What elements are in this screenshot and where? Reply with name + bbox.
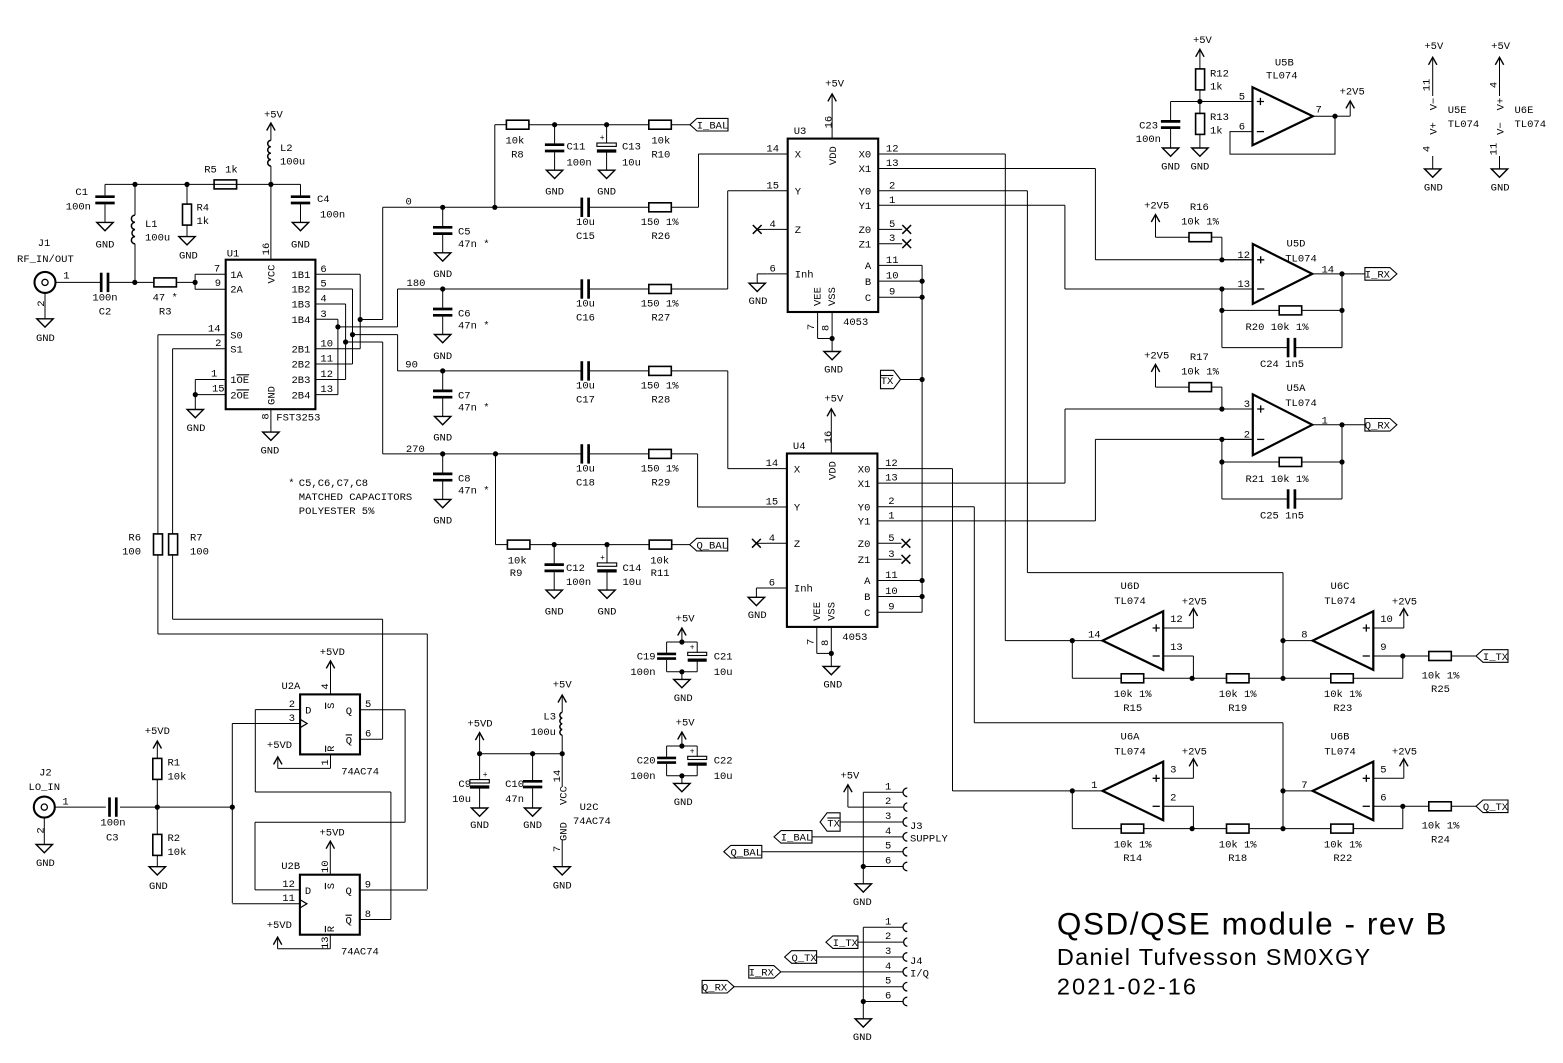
svg-text:C24 1n5: C24 1n5 [1260, 359, 1304, 371]
svg-text:GND: GND [260, 446, 279, 458]
svg-text:GND: GND [433, 269, 452, 281]
svg-text:R28: R28 [651, 395, 670, 407]
svg-text:U6C: U6C [1331, 581, 1350, 593]
svg-text:R4: R4 [197, 202, 210, 214]
svg-text:+2V5: +2V5 [1392, 596, 1417, 608]
svg-text:U5D: U5D [1287, 239, 1306, 251]
svg-text:U5E: U5E [1448, 105, 1467, 117]
svg-text:GND: GND [749, 296, 768, 308]
svg-text:Z0: Z0 [859, 225, 872, 237]
svg-text:GND: GND [433, 351, 452, 363]
svg-text:5: 5 [885, 976, 891, 988]
svg-text:+: + [483, 771, 488, 780]
svg-text:VSS: VSS [827, 287, 839, 306]
svg-text:+5VD: +5VD [320, 647, 345, 659]
svg-text:J2: J2 [39, 768, 52, 780]
svg-text:A: A [865, 261, 872, 273]
svg-text:TL074: TL074 [1448, 119, 1480, 131]
svg-text:1: 1 [885, 781, 891, 793]
svg-text:L3: L3 [543, 712, 556, 724]
svg-text:B: B [865, 277, 871, 289]
svg-text:100n: 100n [92, 292, 117, 304]
svg-text:FST3253: FST3253 [276, 412, 320, 424]
svg-text:D: D [305, 706, 311, 718]
svg-text:Q: Q [346, 706, 352, 718]
svg-text:VEE: VEE [813, 287, 825, 306]
svg-text:+2V5: +2V5 [1182, 747, 1207, 759]
svg-text:C9: C9 [458, 779, 471, 791]
svg-text:D: D [305, 886, 311, 898]
svg-text:A: A [864, 576, 871, 588]
svg-text:7: 7 [1301, 780, 1307, 792]
svg-text:10k 1%: 10k 1% [1114, 839, 1153, 851]
svg-text:2B4: 2B4 [291, 390, 310, 402]
svg-text:Z1: Z1 [859, 239, 872, 251]
svg-text:Y: Y [794, 503, 801, 515]
svg-text:GND: GND [187, 423, 206, 435]
svg-text:R3: R3 [159, 306, 172, 318]
svg-text:+: + [690, 748, 695, 757]
svg-text:GND: GND [96, 240, 115, 252]
svg-text:1B3: 1B3 [291, 300, 310, 312]
svg-text:X1: X1 [858, 479, 871, 491]
svg-text:14: 14 [766, 458, 779, 470]
svg-text:100n: 100n [630, 771, 655, 783]
svg-text:74AC74: 74AC74 [341, 766, 379, 778]
svg-text:10k 1%: 10k 1% [1181, 367, 1220, 379]
svg-text:150 1%: 150 1% [641, 217, 680, 229]
svg-text:10u: 10u [576, 463, 595, 475]
svg-text:TL074: TL074 [1285, 254, 1317, 266]
svg-text:R25: R25 [1431, 684, 1450, 696]
svg-text:4: 4 [1422, 146, 1434, 152]
svg-text:POLYESTER 5%: POLYESTER 5% [299, 506, 375, 518]
svg-text:C11: C11 [567, 142, 586, 154]
svg-text:90: 90 [405, 359, 418, 371]
svg-text:B: B [864, 592, 870, 604]
svg-text:X: X [795, 150, 802, 162]
svg-text:U5A: U5A [1287, 383, 1307, 395]
svg-text:Y: Y [795, 187, 802, 199]
svg-text:LO_IN: LO_IN [29, 782, 61, 794]
svg-text:I_TX: I_TX [833, 938, 859, 950]
svg-text:U6D: U6D [1121, 581, 1140, 593]
svg-text:2021-02-16: 2021-02-16 [1057, 973, 1198, 999]
svg-text:13: 13 [320, 936, 332, 949]
svg-text:10: 10 [320, 860, 332, 873]
svg-text:VCC: VCC [267, 265, 279, 284]
svg-text:5: 5 [1380, 764, 1386, 776]
svg-text:C4: C4 [317, 194, 330, 206]
svg-text:+5V: +5V [1491, 41, 1511, 53]
svg-text:6: 6 [1380, 792, 1386, 804]
svg-text:GND: GND [36, 333, 55, 345]
svg-text:C2: C2 [99, 306, 112, 318]
svg-text:3: 3 [885, 811, 891, 823]
svg-text:Q_BAL: Q_BAL [696, 540, 728, 552]
svg-text:U2C: U2C [580, 802, 599, 814]
svg-text:TX: TX [881, 376, 894, 388]
svg-text:14: 14 [1088, 630, 1101, 642]
svg-text:VSS: VSS [826, 602, 838, 621]
svg-text:+5VD: +5VD [319, 827, 344, 839]
svg-text:+5VD: +5VD [267, 740, 292, 752]
svg-text:S: S [326, 883, 338, 889]
svg-text:Q_TX: Q_TX [791, 953, 817, 965]
svg-text:VDD: VDD [828, 146, 840, 165]
svg-text:C17: C17 [576, 395, 595, 407]
svg-text:1k: 1k [225, 165, 238, 177]
svg-text:1: 1 [211, 369, 217, 381]
svg-text:C8: C8 [458, 473, 471, 485]
svg-text:1k: 1k [1210, 126, 1223, 138]
svg-text:TL074: TL074 [1114, 746, 1146, 758]
svg-text:Q: Q [345, 916, 351, 928]
svg-text:5: 5 [1239, 92, 1245, 104]
svg-text:+5V: +5V [1424, 41, 1444, 53]
svg-text:GND: GND [748, 610, 767, 622]
svg-text:C: C [865, 293, 871, 305]
svg-text:2B1: 2B1 [291, 345, 310, 357]
svg-text:R5: R5 [204, 165, 217, 177]
svg-text:+5V: +5V [825, 79, 845, 91]
svg-text:U6B: U6B [1331, 731, 1350, 743]
svg-text:10k 1%: 10k 1% [1219, 839, 1258, 851]
svg-text:R29: R29 [651, 478, 670, 490]
svg-text:GND: GND [470, 820, 489, 832]
svg-text:C: C [864, 608, 870, 620]
svg-text:100n: 100n [320, 210, 345, 222]
svg-text:S1: S1 [230, 345, 243, 357]
svg-text:SUPPLY: SUPPLY [910, 833, 949, 845]
svg-text:R7: R7 [190, 533, 203, 545]
svg-text:U5B: U5B [1275, 58, 1294, 70]
svg-text:4: 4 [885, 961, 891, 973]
svg-text:Q_RX: Q_RX [702, 983, 728, 995]
svg-text:C13: C13 [622, 142, 641, 154]
svg-text:Q_BAL: Q_BAL [731, 848, 763, 860]
svg-text:Q_TX: Q_TX [1483, 802, 1509, 814]
svg-text:Daniel Tufvesson SM0XGY: Daniel Tufvesson SM0XGY [1057, 944, 1372, 970]
svg-text:+2V5: +2V5 [1144, 351, 1169, 363]
svg-text:7: 7 [1315, 105, 1321, 117]
svg-text:10u: 10u [452, 794, 471, 806]
svg-text:GND: GND [553, 880, 572, 892]
svg-text:+5V: +5V [840, 770, 860, 782]
svg-text:+: + [690, 644, 695, 653]
svg-text:X0: X0 [859, 150, 872, 162]
svg-text:X: X [794, 464, 801, 476]
svg-text:100n: 100n [630, 667, 655, 679]
svg-text:C20: C20 [637, 755, 656, 767]
svg-text:TX: TX [827, 818, 840, 830]
svg-text:TL074: TL074 [1114, 596, 1146, 608]
svg-text:C23: C23 [1139, 120, 1158, 132]
svg-text:2OE: 2OE [230, 390, 249, 402]
svg-text:S: S [326, 703, 338, 709]
svg-text:10k 1%: 10k 1% [1114, 689, 1153, 701]
svg-text:8: 8 [1301, 630, 1307, 642]
svg-text:R27: R27 [651, 313, 670, 325]
svg-text:10k 1%: 10k 1% [1219, 689, 1258, 701]
svg-text:+5V: +5V [1193, 35, 1213, 47]
svg-text:GND: GND [523, 820, 542, 832]
svg-text:I_TX: I_TX [1483, 652, 1509, 664]
svg-text:GND: GND [433, 516, 452, 528]
svg-text:100u: 100u [280, 157, 305, 169]
svg-text:GND: GND [545, 606, 564, 618]
svg-text:+5VD: +5VD [145, 726, 170, 738]
svg-text:8: 8 [260, 413, 272, 419]
svg-text:9: 9 [215, 278, 221, 290]
svg-text:2: 2 [215, 338, 221, 350]
svg-text:R18: R18 [1228, 853, 1247, 865]
svg-text:+2V5: +2V5 [1182, 596, 1207, 608]
svg-text:I_BAL: I_BAL [781, 833, 813, 845]
svg-text:VDD: VDD [827, 461, 839, 480]
svg-text:4: 4 [885, 826, 891, 838]
svg-text:GND: GND [36, 858, 55, 870]
svg-text:U1: U1 [227, 249, 240, 261]
svg-text:100n: 100n [100, 817, 125, 829]
svg-text:47 *: 47 * [153, 292, 178, 304]
svg-text:GND: GND [559, 822, 571, 841]
svg-text:1OE: 1OE [230, 375, 249, 387]
svg-text:8: 8 [820, 640, 832, 646]
svg-text:C14: C14 [623, 563, 642, 575]
svg-text:U3: U3 [794, 126, 807, 138]
svg-text:GND: GND [267, 386, 279, 405]
svg-text:10k: 10k [651, 136, 670, 148]
svg-text:2: 2 [1170, 792, 1176, 804]
svg-text:5: 5 [885, 841, 891, 853]
svg-text:U4: U4 [793, 441, 806, 453]
svg-text:10u: 10u [714, 667, 733, 679]
svg-text:GND: GND [823, 679, 842, 691]
svg-text:C12: C12 [566, 563, 585, 575]
svg-text:R15: R15 [1123, 703, 1142, 715]
svg-text:GND: GND [824, 365, 843, 377]
svg-text:100n: 100n [1136, 134, 1161, 146]
svg-text:+2V5: +2V5 [1392, 747, 1417, 759]
svg-text:V−: V− [1429, 98, 1441, 111]
svg-text:C1: C1 [75, 187, 88, 199]
svg-text:100u: 100u [145, 232, 170, 244]
svg-text:R19: R19 [1228, 703, 1247, 715]
svg-text:GND: GND [597, 187, 616, 199]
svg-text:16: 16 [824, 116, 836, 129]
svg-text:11: 11 [1422, 79, 1434, 92]
svg-text:4: 4 [1489, 82, 1501, 88]
svg-text:+: + [600, 134, 605, 143]
svg-text:R20 10k 1%: R20 10k 1% [1245, 322, 1309, 334]
svg-text:Y1: Y1 [859, 201, 872, 213]
svg-text:TL074: TL074 [1285, 398, 1317, 410]
svg-text:13: 13 [1170, 642, 1183, 654]
svg-text:+5V: +5V [676, 718, 696, 730]
svg-text:+: + [600, 554, 605, 563]
svg-text:1B2: 1B2 [291, 285, 310, 297]
svg-text:R: R [326, 925, 338, 932]
svg-text:TL074: TL074 [1324, 596, 1356, 608]
svg-text:10k 1%: 10k 1% [1324, 839, 1363, 851]
svg-text:14: 14 [1322, 264, 1335, 276]
svg-text:6: 6 [885, 991, 891, 1003]
svg-text:100n: 100n [566, 577, 591, 589]
svg-text:Q: Q [346, 735, 352, 747]
svg-text:12: 12 [1237, 250, 1250, 262]
svg-text:2: 2 [36, 300, 48, 306]
svg-text:U2A: U2A [281, 681, 301, 693]
svg-text:4053: 4053 [842, 632, 867, 644]
svg-text:GND: GND [179, 251, 198, 263]
svg-text:1: 1 [1322, 415, 1328, 427]
svg-text:R14: R14 [1123, 853, 1142, 865]
svg-text:16: 16 [823, 431, 835, 444]
svg-text:+2V5: +2V5 [1144, 201, 1169, 213]
svg-text:U6E: U6E [1515, 105, 1534, 117]
svg-text:100: 100 [122, 547, 141, 559]
svg-text:X0: X0 [858, 464, 871, 476]
svg-text:2A: 2A [230, 285, 243, 297]
svg-text:C16: C16 [576, 313, 595, 325]
svg-text:J4: J4 [910, 956, 923, 968]
svg-text:3: 3 [1170, 764, 1176, 776]
svg-text:TL074: TL074 [1324, 746, 1356, 758]
svg-text:10k: 10k [168, 847, 187, 859]
svg-text:I/Q: I/Q [910, 968, 929, 980]
svg-text:1B1: 1B1 [291, 270, 310, 282]
svg-text:10k 1%: 10k 1% [1422, 821, 1461, 833]
svg-text:R22: R22 [1333, 853, 1352, 865]
svg-text:R9: R9 [510, 568, 523, 580]
svg-text:C22: C22 [714, 755, 733, 767]
svg-text:2: 2 [35, 827, 47, 833]
svg-text:L2: L2 [280, 143, 293, 155]
svg-text:10k 1%: 10k 1% [1181, 217, 1220, 229]
svg-text:C10: C10 [505, 779, 524, 791]
svg-text:2B3: 2B3 [291, 375, 310, 387]
svg-text:TL074: TL074 [1266, 70, 1298, 82]
svg-text:Inh: Inh [795, 270, 814, 282]
svg-text:Q: Q [345, 886, 351, 898]
svg-text:GND: GND [291, 240, 310, 252]
svg-text:VCC: VCC [559, 786, 571, 805]
svg-text:Z: Z [794, 539, 800, 551]
svg-text:100: 100 [190, 547, 209, 559]
svg-text:I_RX: I_RX [1365, 270, 1391, 282]
svg-text:C7: C7 [458, 390, 471, 402]
svg-text:C19: C19 [637, 651, 656, 663]
svg-text:1A: 1A [230, 270, 243, 282]
svg-text:1: 1 [320, 759, 332, 765]
svg-text:GND: GND [1190, 161, 1209, 173]
svg-text:14: 14 [766, 144, 779, 156]
svg-text:1k: 1k [1210, 81, 1223, 93]
svg-text:R23: R23 [1333, 703, 1352, 715]
svg-text:GND: GND [853, 897, 872, 909]
svg-text:10u: 10u [576, 217, 595, 229]
svg-text:GND: GND [545, 187, 564, 199]
svg-text:R1: R1 [168, 758, 181, 770]
svg-text:16: 16 [261, 243, 273, 256]
svg-text:10u: 10u [714, 771, 733, 783]
svg-text:47n *: 47n * [458, 239, 490, 251]
svg-text:2: 2 [1244, 430, 1250, 442]
svg-text:+5VD: +5VD [267, 920, 292, 932]
svg-text:1: 1 [1091, 780, 1097, 792]
svg-text:+5VD: +5VD [467, 718, 492, 730]
svg-text:Y0: Y0 [858, 502, 871, 514]
svg-text:47n *: 47n * [458, 321, 490, 333]
svg-text:X1: X1 [859, 164, 872, 176]
svg-text:10u: 10u [623, 577, 642, 589]
svg-text:2: 2 [885, 931, 891, 943]
svg-text:150 1%: 150 1% [641, 380, 680, 392]
svg-text:3: 3 [1244, 399, 1250, 411]
svg-text:GND: GND [598, 606, 617, 618]
svg-text:C6: C6 [458, 308, 471, 320]
svg-text:3: 3 [885, 946, 891, 958]
svg-text:10u: 10u [576, 380, 595, 392]
svg-text:Z0: Z0 [858, 539, 871, 551]
svg-text:C3: C3 [106, 833, 119, 845]
svg-text:VEE: VEE [812, 602, 824, 621]
svg-text:V−: V− [1496, 122, 1508, 135]
svg-text:I_RX: I_RX [749, 968, 775, 980]
svg-text:7: 7 [214, 263, 220, 275]
svg-text:10k: 10k [508, 555, 527, 567]
svg-text:R26: R26 [651, 231, 670, 243]
svg-text:+5V: +5V [264, 109, 284, 121]
svg-text:QSD/QSE module - rev B: QSD/QSE module - rev B [1057, 906, 1448, 942]
svg-text:R13: R13 [1210, 112, 1229, 124]
svg-text:R11: R11 [651, 568, 670, 580]
svg-text:TL074: TL074 [1515, 119, 1547, 131]
svg-text:+2V5: +2V5 [1340, 87, 1365, 99]
svg-text:270: 270 [406, 444, 425, 456]
svg-text:14: 14 [208, 324, 221, 336]
svg-text:R6: R6 [128, 533, 141, 545]
svg-text:GND: GND [1161, 161, 1180, 173]
svg-text:100n: 100n [567, 157, 592, 169]
svg-text:R24: R24 [1431, 835, 1450, 847]
svg-text:11: 11 [1489, 143, 1501, 156]
svg-text:C18: C18 [576, 478, 595, 490]
svg-text:GND: GND [433, 433, 452, 445]
svg-text:7: 7 [805, 639, 817, 645]
svg-text:15: 15 [766, 497, 779, 509]
svg-text:1k: 1k [197, 216, 210, 228]
svg-text:15: 15 [212, 384, 225, 396]
svg-text:R2: R2 [168, 833, 181, 845]
svg-text:V+: V+ [1496, 98, 1508, 111]
svg-text:10u: 10u [622, 157, 641, 169]
svg-text:MATCHED CAPACITORS: MATCHED CAPACITORS [299, 492, 412, 504]
svg-text:150 1%: 150 1% [641, 299, 680, 311]
svg-text:R17: R17 [1190, 352, 1209, 364]
svg-text:Q_RX: Q_RX [1365, 421, 1391, 433]
svg-text:12: 12 [1170, 614, 1183, 626]
svg-text:100n: 100n [66, 201, 91, 213]
svg-text:Inh: Inh [794, 584, 813, 596]
svg-text:Y1: Y1 [858, 517, 871, 529]
svg-text:C5,C6,C7,C8: C5,C6,C7,C8 [299, 478, 368, 490]
svg-text:I_BAL: I_BAL [697, 121, 729, 133]
svg-text:4053: 4053 [843, 317, 868, 329]
svg-text:RF_IN/OUT: RF_IN/OUT [17, 254, 74, 266]
svg-text:180: 180 [407, 278, 426, 290]
